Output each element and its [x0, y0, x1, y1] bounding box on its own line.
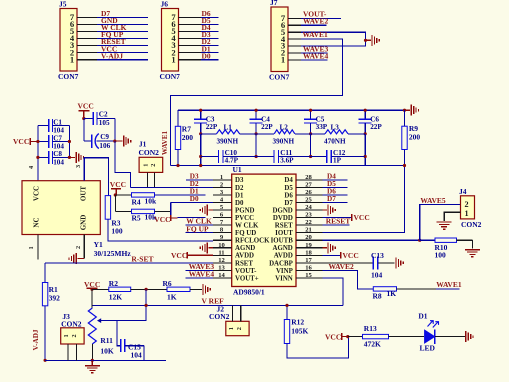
- wire J2 pin 1: [231, 305, 233, 321]
- svg-text:AVDD: AVDD: [235, 253, 254, 260]
- capacitor C3 22P: [194, 110, 218, 134]
- svg-text:FQ UD: FQ UD: [235, 230, 256, 237]
- capacitor C5 33P: [304, 110, 328, 134]
- svg-text:1: 1: [63, 334, 70, 337]
- wire J7 pin 4 to filter input: [171, 39, 343, 165]
- resistor R10 100: [420, 238, 473, 259]
- inductor L2 390NH: [256, 123, 311, 145]
- ground right of C13: [395, 257, 397, 268]
- svg-text:30/125MHz: 30/125MHz: [94, 249, 132, 258]
- capacitor C15 104: [117, 321, 144, 361]
- svg-text:RFCLOCK: RFCLOCK: [235, 238, 270, 245]
- wire R4 to U1 pin 3 / D1 row: [155, 194, 206, 196]
- ground right of C9: [115, 136, 131, 147]
- junction dot: [113, 140, 116, 143]
- capacitor C11 3.6P: [256, 149, 311, 164]
- svg-text:10K: 10K: [100, 346, 114, 355]
- wire R-SET line to U1 pin 12: [45, 262, 213, 264]
- wire J5 pin 1: [77, 59, 148, 61]
- ground right of LED: [465, 331, 467, 342]
- wire Y1 pin 2 to ground: [78, 235, 85, 259]
- svg-text:1: 1: [464, 209, 468, 218]
- svg-text:VCC: VCC: [78, 102, 94, 111]
- svg-text:18: 18: [305, 249, 312, 256]
- diode D1 LED: [418, 311, 438, 352]
- VCC symbol above R3: [110, 180, 126, 195]
- ground below R10: [465, 249, 480, 251]
- svg-text:D2: D2: [235, 185, 244, 192]
- svg-text:R13: R13: [364, 324, 377, 333]
- wire R5 right to D0 column: [155, 210, 171, 212]
- connector J4 CON2: [459, 187, 482, 229]
- svg-text:CON7: CON7: [269, 73, 290, 82]
- svg-text:AD9850/1: AD9850/1: [233, 288, 265, 297]
- junction dot: [346, 335, 349, 338]
- connector J7 CON7: [269, 0, 290, 82]
- resistor R3 100: [105, 196, 123, 236]
- wire U1 pin 7 W CLK: [185, 224, 213, 226]
- svg-text:19: 19: [305, 242, 312, 249]
- svg-text:VCC: VCC: [154, 215, 170, 224]
- svg-text:RSET: RSET: [275, 223, 293, 230]
- wire U1 pin 15 VINN down to V REF line: [322, 278, 343, 305]
- resistor R2 12K: [92, 279, 131, 301]
- wire R2 to R6: [131, 288, 167, 290]
- svg-text:PGND: PGND: [235, 207, 255, 214]
- svg-text:WAVE2: WAVE2: [303, 17, 329, 26]
- svg-text:D7: D7: [327, 195, 336, 203]
- svg-text:C13: C13: [371, 251, 384, 260]
- svg-text:AGND: AGND: [273, 245, 293, 252]
- svg-text:VOUT+: VOUT+: [235, 275, 259, 282]
- wire U1 pin 2 D2 / J1 bus: [130, 186, 213, 188]
- U1 right pin names: [269, 177, 294, 282]
- svg-text:3.6P: 3.6P: [280, 157, 294, 165]
- wire J1 pin 2: [154, 172, 156, 187]
- svg-text:1: 1: [281, 55, 285, 65]
- junction dot: [403, 164, 406, 167]
- svg-text:WAVE2: WAVE2: [329, 262, 355, 271]
- svg-text:24: 24: [305, 204, 312, 211]
- junction dot: [364, 109, 367, 112]
- wire J4 pin 1 to ground: [444, 212, 460, 221]
- svg-text:1: 1: [220, 174, 223, 181]
- wire C9 node down to J1: [115, 141, 131, 187]
- ground at U1 pin 19 AGND: [322, 242, 335, 253]
- capacitor C13 104: [371, 251, 384, 280]
- wire U1 pin 13 WAVE3: [185, 269, 213, 271]
- svg-text:105: 105: [99, 119, 110, 127]
- svg-text:D7: D7: [284, 200, 293, 207]
- svg-text:WAVE4: WAVE4: [303, 51, 329, 60]
- svg-text:1: 1: [228, 327, 235, 330]
- svg-text:4.7P: 4.7P: [225, 157, 239, 165]
- connector J5 CON7: [58, 0, 79, 81]
- ground at bottom rail: [85, 360, 100, 373]
- svg-text:100: 100: [111, 227, 123, 236]
- wire R8 to WAVE1: [397, 288, 460, 290]
- wire U1 pin 22 RESET: [322, 224, 349, 226]
- svg-text:WAVE1: WAVE1: [303, 30, 329, 39]
- svg-text:NC: NC: [33, 217, 41, 227]
- junction dot: [176, 164, 179, 167]
- wire D0 column vertical: [170, 202, 172, 216]
- wire bottom rail: [45, 359, 166, 361]
- junction dot: [91, 359, 94, 362]
- svg-text:17: 17: [305, 257, 312, 264]
- resistor R6 1K: [163, 279, 191, 301]
- svg-text:CON2: CON2: [209, 312, 230, 321]
- svg-text:D1: D1: [235, 192, 244, 199]
- svg-text:J6: J6: [161, 0, 169, 8]
- resistor R13 472K: [348, 324, 389, 348]
- svg-text:D2: D2: [190, 180, 199, 188]
- wire J7 pin 6 WAVE2: [288, 24, 327, 26]
- junction dot: [364, 132, 367, 135]
- junction dot: [364, 39, 367, 42]
- svg-text:CON2: CON2: [461, 220, 482, 229]
- svg-text:W CLK: W CLK: [235, 223, 259, 230]
- connector J2 CON2: [209, 305, 249, 336]
- capacitor C8 104: [38, 150, 70, 166]
- wire J5 pin 2: [77, 52, 148, 54]
- capacitor C2 105: [84, 110, 115, 127]
- svg-text:WAVE5: WAVE5: [420, 196, 446, 205]
- wire J5 pin 4: [77, 38, 148, 40]
- wire WAVE5 to J4: [420, 205, 461, 241]
- svg-text:200: 200: [182, 133, 194, 142]
- svg-text:14: 14: [218, 272, 225, 279]
- connector J6 CON7: [160, 0, 181, 81]
- svg-text:WAVE1: WAVE1: [436, 280, 462, 289]
- svg-text:104: 104: [53, 158, 64, 166]
- VCC symbol above R2: [84, 280, 100, 289]
- junction dot: [199, 164, 202, 167]
- svg-text:11: 11: [218, 249, 224, 256]
- svg-text:VINP: VINP: [276, 268, 294, 275]
- wire R2 R6 junction down to wiper: [99, 289, 146, 320]
- svg-text:100: 100: [435, 250, 447, 259]
- junction dot: [309, 132, 312, 135]
- svg-text:1K: 1K: [387, 289, 397, 298]
- svg-text:390NH: 390NH: [217, 138, 239, 146]
- svg-text:D6: D6: [284, 192, 293, 199]
- svg-text:390NH: 390NH: [273, 138, 295, 146]
- svg-text:22P: 22P: [370, 123, 382, 131]
- svg-text:D4: D4: [284, 177, 293, 184]
- svg-text:10: 10: [218, 242, 225, 249]
- svg-text:12: 12: [218, 257, 225, 264]
- junction dot: [145, 288, 148, 291]
- svg-text:C8: C8: [53, 150, 62, 158]
- svg-text:VCC: VCC: [343, 251, 359, 260]
- resistor R12 105K: [284, 305, 308, 343]
- svg-text:J4: J4: [459, 187, 467, 196]
- svg-text:R6: R6: [163, 279, 172, 288]
- junction dot: [418, 239, 421, 242]
- ground at U1 pin 10 AGND: [200, 242, 213, 253]
- wire R3 to U1 pin 9 RFCLOCK: [108, 219, 213, 241]
- wire J7 pin 5 loop to pin 3: [288, 32, 366, 46]
- svg-text:10k: 10k: [145, 196, 158, 205]
- wire J5 pin 5: [77, 31, 148, 33]
- wire U1 pin 20 IOUTB to R10: [322, 239, 435, 241]
- wire VCC column: [114, 195, 116, 211]
- svg-text:2: 2: [150, 164, 157, 167]
- U1 right pin stubs and numbers: [296, 174, 322, 279]
- wire J6 pin 7: [179, 16, 219, 18]
- svg-text:R2: R2: [109, 279, 118, 288]
- wire to U1 pin 6: [178, 217, 206, 219]
- wire J2 pin 2: [240, 305, 242, 321]
- ground right of R6: [202, 284, 204, 295]
- svg-text:R-SET: R-SET: [131, 254, 153, 263]
- svg-text:PVCC: PVCC: [235, 215, 254, 222]
- junction dot: [44, 359, 47, 362]
- svg-text:VOUT-: VOUT-: [235, 268, 257, 275]
- junction dot: [114, 193, 117, 196]
- svg-text:AVDD: AVDD: [274, 253, 293, 260]
- svg-text:J5: J5: [59, 0, 67, 8]
- svg-text:104: 104: [371, 270, 383, 279]
- junction dot: [199, 109, 202, 112]
- svg-text:R8: R8: [373, 291, 382, 300]
- svg-text:1: 1: [171, 54, 175, 64]
- wire U1 D6: [322, 194, 347, 196]
- svg-text:200: 200: [409, 132, 421, 141]
- svg-text:4: 4: [28, 166, 35, 169]
- svg-text:D1: D1: [418, 311, 427, 320]
- svg-text:VCC: VCC: [325, 332, 341, 341]
- wire U1 pin 8 FQ UP: [185, 232, 213, 234]
- svg-text:C9: C9: [100, 133, 109, 141]
- svg-text:L2: L2: [280, 123, 289, 131]
- inductor L3 470NH: [311, 123, 366, 145]
- ground at J4 pin 1: [437, 221, 452, 223]
- svg-text:27: 27: [305, 181, 312, 188]
- VCC symbol at U1 pin 6 PVCC: [154, 215, 177, 224]
- wire J5 pin 3: [77, 45, 148, 47]
- wire J6 pin 3: [179, 45, 219, 47]
- svg-text:VCC: VCC: [354, 213, 370, 222]
- oscillator Y1 30/125MHz: [22, 165, 131, 258]
- svg-text:DVDD: DVDD: [273, 215, 293, 222]
- VCC at U1 pin 11 AVDD: [171, 251, 213, 260]
- junction dot: [82, 117, 85, 120]
- svg-text:V-ADJ: V-ADJ: [32, 329, 40, 350]
- svg-text:R4: R4: [132, 197, 141, 206]
- resistor R9 200: [402, 110, 421, 165]
- wire J5 pin 6: [77, 23, 148, 25]
- wire R6 to ground: [190, 288, 202, 290]
- svg-text:VCC: VCC: [13, 137, 29, 146]
- junction dot: [255, 109, 258, 112]
- svg-text:13: 13: [218, 264, 225, 271]
- wire J3 pin 1: [67, 344, 69, 360]
- junction dot: [199, 132, 202, 135]
- svg-text:105K: 105K: [291, 327, 308, 336]
- inductor L1 390NH: [201, 123, 256, 145]
- junction dot: [255, 132, 258, 135]
- U1 left pin names: [235, 177, 270, 282]
- wire R-SET down to R1: [44, 263, 46, 283]
- svg-text:470NH: 470NH: [324, 138, 346, 146]
- wire J7 pin 2 WAVE3: [288, 52, 328, 54]
- svg-text:2: 2: [236, 327, 243, 330]
- wire Y1 pin 1 NC stub: [37, 235, 39, 260]
- op-amp U1 AD9850/1 IC body: [232, 165, 296, 297]
- wire cap bank left rail: [37, 126, 39, 181]
- svg-text:WAVE1: WAVE1: [161, 130, 169, 155]
- capacitor C6 22P: [359, 110, 383, 134]
- svg-text:12K: 12K: [109, 293, 123, 302]
- potentiometer R11 10K: [88, 308, 114, 355]
- svg-text:D0: D0: [235, 200, 244, 207]
- svg-text:15: 15: [305, 272, 312, 279]
- wire filter bottom rail: [171, 165, 405, 167]
- svg-text:D5: D5: [284, 185, 293, 192]
- connector J1 CON2: [139, 140, 163, 173]
- svg-text:VINN: VINN: [275, 275, 293, 282]
- wire filter top rail: [178, 109, 405, 111]
- wire U1 pin 1 D3: [186, 179, 213, 181]
- svg-text:1: 1: [28, 246, 35, 249]
- svg-text:2: 2: [75, 246, 82, 249]
- wire R13 to LED: [389, 336, 425, 338]
- capacitor C10 4.7P: [201, 149, 256, 164]
- svg-text:WAVE4: WAVE4: [189, 270, 215, 279]
- U1 left pin stubs and numbers: [213, 174, 232, 279]
- svg-text:22: 22: [305, 219, 312, 226]
- wire R10 to ground: [471, 240, 473, 248]
- svg-text:392: 392: [49, 294, 61, 303]
- wire R11 bottom to rail: [91, 344, 93, 360]
- wire J7 pin 1 WAVE4: [288, 59, 328, 61]
- svg-text:21: 21: [305, 227, 312, 234]
- wire J6 pin 6: [179, 23, 219, 25]
- svg-text:23: 23: [305, 212, 312, 219]
- wire cap bank right rail: [68, 126, 70, 158]
- svg-text:IOUTB: IOUTB: [271, 238, 294, 245]
- wire U1 pin 14 WAVE4: [185, 277, 213, 279]
- svg-text:CON7: CON7: [160, 72, 181, 81]
- capacitor C1 104: [38, 118, 70, 134]
- svg-text:VCC: VCC: [110, 180, 126, 189]
- wire U1 pin 17 DACBP to C13: [322, 262, 373, 264]
- ground at Y1 pin 2: [75, 253, 77, 264]
- capacitor C7 104: [38, 134, 70, 150]
- svg-text:C7: C7: [53, 134, 62, 142]
- svg-text:DGND: DGND: [273, 207, 293, 214]
- wire VCC down to R11: [91, 289, 93, 308]
- junction dot: [309, 109, 312, 112]
- svg-text:CON2: CON2: [139, 148, 160, 157]
- junction dot: [403, 109, 406, 112]
- svg-text:26: 26: [305, 189, 312, 196]
- svg-text:33P: 33P: [316, 123, 328, 131]
- wire U1 D7: [322, 201, 347, 203]
- capacitor C12 1P: [311, 149, 366, 164]
- svg-text:V-ADJ: V-ADJ: [101, 51, 123, 60]
- svg-text:D3: D3: [235, 177, 244, 184]
- wire U1 pin 4 D0: [171, 201, 213, 203]
- wire J6 pin 1: [179, 59, 219, 61]
- junction dots C line: [199, 155, 202, 158]
- svg-text:DACBP: DACBP: [269, 260, 294, 267]
- svg-text:D0: D0: [190, 195, 199, 203]
- resistor R8 1K: [373, 287, 397, 301]
- svg-text:U1: U1: [233, 165, 242, 174]
- VCC at U1 pin 23 DVDD: [322, 213, 369, 222]
- junction dot: [90, 288, 93, 291]
- svg-text:25: 25: [305, 196, 312, 203]
- wire C13 to ground: [378, 262, 395, 264]
- wire LED to ground: [435, 336, 465, 338]
- svg-text:D0: D0: [202, 51, 211, 60]
- svg-text:IOUT: IOUT: [275, 230, 293, 237]
- svg-text:1: 1: [143, 164, 150, 167]
- svg-text:106: 106: [99, 142, 110, 150]
- svg-text:VCC: VCC: [33, 186, 41, 201]
- wire J5 pin 7: [77, 16, 148, 18]
- VCC symbol left: [13, 137, 38, 146]
- svg-text:FQ UP: FQ UP: [186, 224, 209, 233]
- svg-text:RSET: RSET: [235, 260, 253, 267]
- junction dot: [285, 304, 288, 307]
- svg-text:LED: LED: [420, 343, 436, 352]
- svg-text:VCC: VCC: [171, 251, 187, 260]
- svg-text:16: 16: [305, 264, 312, 271]
- svg-text:2: 2: [464, 200, 468, 209]
- wire V REF line: [92, 304, 343, 306]
- resistor R4 10k: [115, 193, 157, 207]
- wire C2 C9 left rail: [83, 119, 85, 142]
- wire U1 pin 21 IOUT to filter output: [322, 166, 404, 233]
- wire J3 pin 2: [75, 344, 77, 360]
- svg-text:22P: 22P: [261, 123, 273, 131]
- wire J6 pin 2: [179, 52, 219, 54]
- svg-text:OUT: OUT: [80, 186, 88, 202]
- resistor R7 200: [175, 110, 193, 165]
- wire J6 pin 5: [179, 31, 219, 33]
- wire J6 pin 4: [179, 38, 219, 40]
- junction dots cap bank: [36, 140, 39, 143]
- wire U1 D4: [322, 179, 347, 181]
- svg-text:20: 20: [305, 234, 312, 241]
- svg-text:GND: GND: [80, 215, 88, 231]
- capacitor C9 106 polarized: [84, 133, 115, 150]
- wire U1 D5: [322, 186, 347, 188]
- junction dot: [145, 304, 148, 307]
- VCC symbol bottom right: [325, 332, 348, 341]
- svg-text:J7: J7: [270, 0, 278, 7]
- svg-text:1K: 1K: [167, 293, 177, 302]
- resistor R5 10k: [115, 209, 157, 222]
- svg-text:472K: 472K: [364, 339, 381, 348]
- ground at U1 pin 5 PGND: [200, 205, 213, 216]
- svg-text:22P: 22P: [206, 123, 218, 131]
- VCC at U1 pin 18 AVDD: [322, 251, 358, 260]
- svg-text:R12: R12: [291, 318, 304, 327]
- svg-text:AGND: AGND: [235, 245, 255, 252]
- svg-text:1: 1: [70, 54, 74, 64]
- VCC symbol above C2: [78, 102, 94, 119]
- wire Y1 pin 3 OUT to R3: [84, 158, 108, 196]
- svg-text:C1: C1: [53, 118, 62, 126]
- svg-text:3: 3: [75, 165, 82, 168]
- svg-text:2: 2: [71, 334, 78, 337]
- svg-text:R5: R5: [132, 213, 141, 222]
